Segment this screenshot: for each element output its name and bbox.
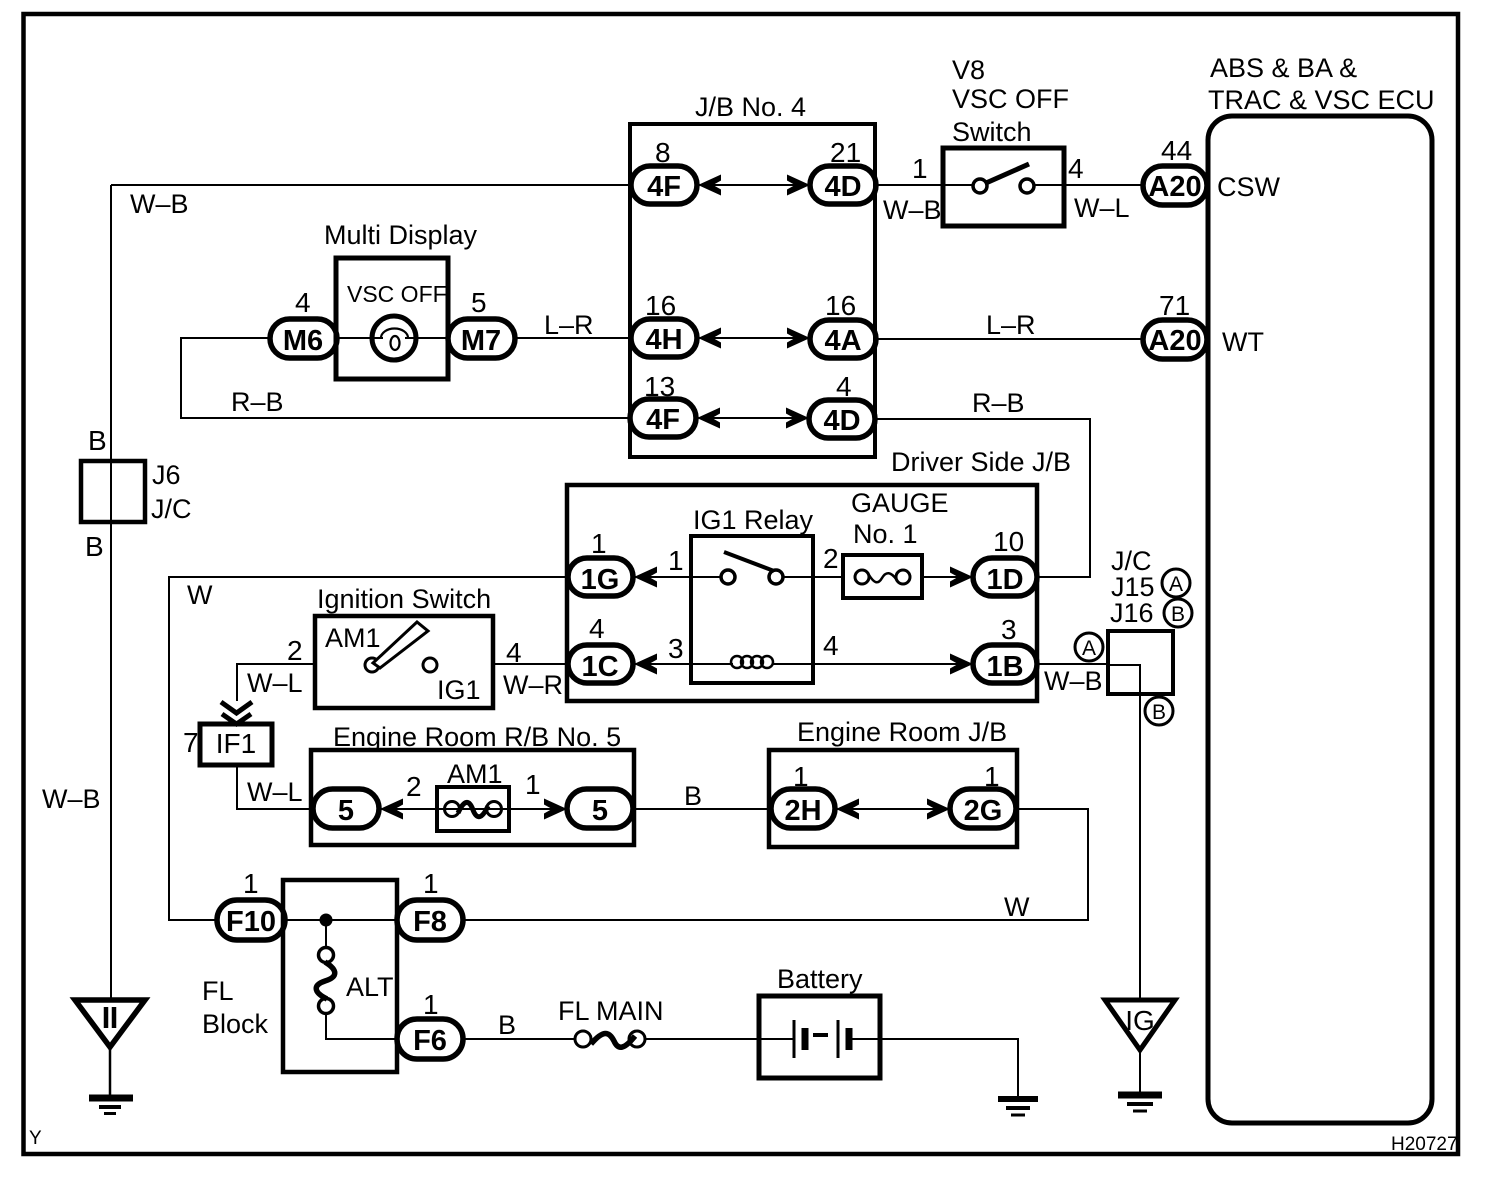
svg-text:2H: 2H [784, 795, 821, 827]
svg-text:3: 3 [668, 633, 684, 664]
svg-text:V8: V8 [952, 55, 985, 85]
connector 5 right [567, 789, 633, 828]
svg-text:16: 16 [825, 290, 856, 321]
fusible link ALT [325, 920, 327, 948]
fusible link block body [283, 880, 397, 1072]
svg-text:1: 1 [423, 868, 439, 899]
ground II marking [104, 1007, 109, 1028]
svg-text:W–R: W–R [503, 670, 563, 700]
svg-text:IG1: IG1 [437, 675, 481, 705]
svg-text:1: 1 [423, 989, 439, 1020]
connector F8 [397, 900, 463, 940]
svg-text:W–B: W–B [883, 195, 942, 225]
wire switch to A20-44 [1064, 184, 1143, 186]
connector 5 left [313, 789, 379, 828]
connector chevrons above IF1 [221, 702, 252, 713]
wire 1C to relay coil row [633, 663, 733, 665]
wire IF1 down to R/B No.5 [237, 765, 313, 809]
multi display body [336, 258, 448, 379]
svg-text:VSC OFF: VSC OFF [952, 84, 1069, 114]
ignition contact left [365, 658, 379, 672]
svg-text:1: 1 [912, 153, 928, 184]
svg-text:44: 44 [1161, 135, 1192, 166]
arrowhead right at 2G [927, 799, 950, 820]
svg-text:3: 3 [1001, 614, 1017, 645]
svg-text:5: 5 [471, 287, 487, 318]
svg-text:2: 2 [287, 635, 303, 666]
svg-text:A20: A20 [1148, 171, 1201, 203]
svg-text:R–B: R–B [972, 388, 1025, 418]
fusible link IF1 body [200, 724, 272, 765]
svg-text:ALT: ALT [346, 972, 394, 1002]
wire ALT to F6 [326, 1013, 397, 1039]
switch contact right [1020, 179, 1034, 193]
wire 4A to A20-71 [876, 338, 1143, 340]
svg-text:B: B [1152, 701, 1166, 724]
wire M6 left then down to R-B run [181, 338, 630, 418]
svg-text:IG1 Relay: IG1 Relay [693, 505, 814, 535]
svg-text:F8: F8 [413, 906, 447, 938]
wire M7 to 4H [515, 337, 631, 339]
svg-text:Multi Display: Multi Display [324, 220, 478, 250]
svg-text:4A: 4A [824, 325, 861, 357]
svg-text:2: 2 [823, 543, 839, 574]
ignition switch body [315, 616, 493, 708]
arrowhead left at 2H [836, 799, 859, 820]
fusible link FL MAIN [575, 1031, 591, 1047]
arrowhead right at 4D row3 [786, 408, 809, 429]
svg-text:J/B No. 4: J/B No. 4 [695, 92, 806, 122]
wire 2G down to W run [462, 809, 1088, 920]
switch blade [986, 164, 1029, 183]
svg-text:W: W [1004, 892, 1030, 922]
svg-text:No. 1: No. 1 [853, 519, 918, 549]
ground stem IG [1139, 1050, 1141, 1094]
ignition blade wedge [373, 622, 428, 668]
ignition contact right [423, 658, 437, 672]
junction block J/B No.4 body [630, 124, 875, 457]
relay wire row1 inside [691, 576, 721, 578]
svg-text:IG: IG [1125, 1005, 1155, 1036]
svg-text:Battery: Battery [777, 964, 863, 994]
svg-text:B: B [1171, 603, 1185, 626]
wire 4F to 4D inside J/B No.4 [697, 184, 810, 186]
node A circled legend [1162, 569, 1190, 597]
svg-text:Block: Block [202, 1009, 269, 1039]
wire relay to fuse [813, 576, 843, 578]
connector 1C [568, 645, 633, 683]
ground triangle IG [1105, 1000, 1175, 1050]
svg-text:4: 4 [1068, 153, 1084, 184]
wire W-B from main vertical to connector 4F [111, 184, 631, 186]
ground triangle II [75, 1000, 145, 1047]
wire W from 1G left down to F10 [169, 577, 568, 920]
svg-text:B: B [498, 1010, 516, 1040]
svg-text:WT: WT [1222, 327, 1264, 357]
arrowhead left at 4F row3 [697, 408, 720, 429]
ground symbol battery [998, 1096, 1038, 1102]
svg-text:2: 2 [406, 771, 422, 802]
wire R-B from 4D down to 1D [875, 419, 1090, 577]
arrowhead right at 4A [787, 328, 810, 349]
junction connector J15/J16 body [1108, 631, 1173, 694]
svg-text:A: A [1169, 573, 1183, 596]
connector A20 pin71 [1143, 320, 1207, 359]
fuse AM1 body [437, 787, 509, 831]
switch V8 body [943, 148, 1064, 226]
ground stem II [109, 1047, 112, 1096]
svg-text:4D: 4D [824, 171, 861, 203]
svg-text:H20727: H20727 [1391, 1134, 1458, 1155]
svg-text:W–B: W–B [1044, 666, 1103, 696]
svg-text:W–L: W–L [1074, 193, 1130, 223]
battery body [759, 996, 880, 1078]
arrowhead left at 4F [698, 175, 721, 196]
svg-text:10: 10 [993, 526, 1024, 557]
node B circled at J/C exit [1145, 697, 1173, 725]
svg-text:Ignition Switch: Ignition Switch [317, 584, 491, 614]
wire 1G to relay [633, 576, 691, 578]
junction connector J6 J/C body [81, 461, 145, 522]
connector 4H [631, 319, 697, 357]
connector 4F row1 [631, 166, 697, 204]
svg-text:IF1: IF1 [216, 728, 256, 759]
wire F10 to F8 through block [285, 919, 397, 921]
connector 2G [950, 789, 1016, 828]
svg-text:Switch: Switch [952, 117, 1032, 147]
fuse AM1 element [445, 802, 460, 817]
switch contact left [973, 179, 987, 193]
wire 2H to 2G [835, 808, 950, 810]
svg-text:1: 1 [525, 769, 541, 800]
wire FL MAIN to battery [645, 1038, 759, 1040]
svg-text:4F: 4F [646, 404, 680, 436]
wire F6 to FL MAIN [463, 1038, 575, 1040]
svg-text:VSC OFF: VSC OFF [347, 281, 447, 307]
connector A20 pin44 [1143, 166, 1207, 205]
wire 4D to VSC OFF switch [876, 184, 944, 186]
connector M7 [448, 319, 515, 358]
svg-text:R–B: R–B [231, 387, 284, 417]
connector F10 [217, 900, 285, 940]
arrowhead right at 5 right [544, 799, 567, 820]
relay contact left [721, 570, 735, 584]
svg-text:L–R: L–R [986, 310, 1036, 340]
wire battery to ground [880, 1039, 1018, 1097]
relay blade [724, 552, 774, 571]
VSC OFF indicator lamp [372, 316, 416, 360]
relay IG1 body [691, 536, 813, 683]
connector F6 [397, 1019, 463, 1059]
wire ignition to 1C [493, 663, 568, 665]
svg-text:ABS & BA &: ABS & BA & [1210, 53, 1357, 83]
svg-text:J/C: J/C [151, 494, 192, 524]
relay coil [731, 656, 743, 668]
battery cells [759, 1038, 794, 1040]
svg-text:J6: J6 [152, 460, 181, 490]
connector 2H [771, 789, 835, 828]
svg-text:F10: F10 [226, 906, 276, 938]
main W-B vertical wire left [110, 185, 112, 1000]
driver side J/B body [567, 485, 1037, 701]
svg-text:W–L: W–L [247, 668, 303, 698]
fuse GAUGE No.1 body [843, 555, 922, 598]
svg-text:AM1: AM1 [325, 623, 381, 653]
junction dot ALT tap [320, 914, 333, 927]
svg-text:71: 71 [1159, 290, 1190, 321]
svg-text:GAUGE: GAUGE [851, 488, 949, 518]
svg-text:4H: 4H [645, 324, 682, 356]
ground symbol IG [1118, 1092, 1162, 1099]
connector 1G [568, 558, 633, 596]
svg-text:J16: J16 [1110, 598, 1154, 628]
wire fuse to 1D [922, 576, 973, 578]
svg-text:W: W [187, 580, 213, 610]
svg-text:5: 5 [592, 795, 608, 827]
svg-text:B: B [684, 781, 702, 811]
svg-text:W–B: W–B [130, 189, 189, 219]
svg-text:4F: 4F [647, 171, 681, 203]
svg-text:B: B [88, 425, 107, 456]
relay contact right [769, 570, 783, 584]
wire ignition left down to IF1 [237, 664, 315, 701]
connector M6 [270, 319, 337, 358]
wire coil to 1B [772, 663, 973, 665]
svg-text:1G: 1G [581, 564, 620, 596]
svg-text:1D: 1D [986, 564, 1023, 596]
switch internal wire [943, 184, 972, 186]
fuse element [855, 570, 869, 584]
svg-text:AM1: AM1 [447, 759, 503, 789]
wire 4H to 4A [697, 337, 810, 339]
svg-text:4: 4 [823, 630, 839, 661]
svg-text:A20: A20 [1148, 325, 1201, 357]
svg-text:FL: FL [202, 976, 234, 1006]
ground symbol II [89, 1095, 133, 1102]
svg-text:4: 4 [295, 287, 311, 318]
svg-text:Y: Y [29, 1128, 42, 1149]
svg-text:W–B: W–B [42, 784, 101, 814]
svg-text:1B: 1B [986, 651, 1023, 683]
svg-text:F6: F6 [413, 1025, 447, 1057]
svg-text:TRAC & VSC ECU: TRAC & VSC ECU [1208, 85, 1435, 115]
svg-text:1: 1 [668, 545, 684, 576]
arrowhead left at 5 [380, 799, 403, 820]
connector 4D row1 [810, 166, 876, 204]
svg-text:7: 7 [183, 727, 199, 758]
wire 4F to 4D row3 [696, 417, 809, 419]
arrowhead right at 4D [787, 175, 810, 196]
wire inside J/C down [1108, 665, 1140, 1000]
node B circled legend [1164, 599, 1192, 627]
connector 4F row3 [630, 399, 696, 437]
svg-text:A: A [1082, 637, 1096, 660]
wire 1B to J/C J15 [1037, 663, 1109, 665]
svg-text:4: 4 [589, 613, 605, 644]
svg-text:Engine Room R/B No. 5: Engine Room R/B No. 5 [333, 722, 621, 752]
svg-text:1: 1 [243, 868, 259, 899]
wire 5 to AM1 fuse [379, 808, 567, 810]
arrowhead left at 4H [698, 328, 721, 349]
svg-text:4D: 4D [823, 405, 860, 437]
svg-text:B: B [85, 531, 104, 562]
connector 1D [973, 558, 1037, 596]
svg-text:Driver Side J/B: Driver Side J/B [891, 447, 1071, 477]
engine room R/B No.5 body [311, 750, 634, 845]
svg-text:W–L: W–L [247, 777, 303, 807]
engine room J/B body [769, 750, 1017, 847]
svg-text:CSW: CSW [1217, 172, 1281, 202]
svg-text:1C: 1C [581, 651, 618, 683]
arrowhead right at 1B [950, 654, 973, 675]
wire 5 to 2H [633, 808, 771, 810]
svg-text:FL MAIN: FL MAIN [558, 996, 664, 1026]
arrowhead left at 1C [634, 654, 657, 675]
connector 1B [973, 645, 1037, 683]
svg-text:L–R: L–R [544, 310, 594, 340]
connector 4A [810, 320, 876, 358]
svg-text:M6: M6 [283, 325, 323, 357]
svg-text:2G: 2G [964, 795, 1003, 827]
connector 4D row3 [809, 400, 875, 438]
node A circled at 1B wire [1075, 633, 1103, 661]
arrowhead left at 1G [634, 567, 657, 588]
ECU body [1208, 116, 1432, 1123]
arrowhead right at 1D [950, 567, 973, 588]
svg-text:Engine Room J/B: Engine Room J/B [797, 717, 1007, 747]
svg-text:M7: M7 [461, 325, 501, 357]
svg-text:1: 1 [591, 528, 607, 559]
svg-text:5: 5 [338, 795, 354, 827]
